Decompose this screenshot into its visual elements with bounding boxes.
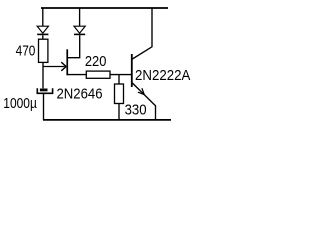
- svg-text:470: 470: [16, 43, 36, 60]
- wire top supply rail: [41, 7, 168, 9]
- wire R3 to bottom rail: [118, 104, 120, 121]
- svg-text:2N2222A: 2N2222A: [135, 67, 190, 84]
- resistor 330: [115, 84, 124, 104]
- UJT emitter arrowhead: [61, 62, 66, 71]
- wire junction to R3: [118, 75, 120, 84]
- capacitor 1000u positive plate: [40, 89, 48, 92]
- diode D2: [74, 26, 85, 34]
- transistor emitter arrowhead: [138, 88, 144, 94]
- transistor 2N2222A base bar: [131, 54, 133, 87]
- wire diode D2 anode drop: [79, 8, 81, 26]
- resistor 470: [39, 39, 48, 62]
- transistor emitter lead: [132, 83, 155, 120]
- wire R1 bottom to capacitor / node E: [42, 62, 44, 88]
- svg-text:2N2646: 2N2646: [57, 86, 103, 103]
- UJT 2N2646 base bar: [66, 49, 68, 75]
- transistor collector lead: [132, 8, 152, 59]
- svg-text:330: 330: [125, 102, 147, 119]
- wire D1 cathode to R1: [42, 35, 44, 39]
- wire bottom ground rail: [43, 119, 171, 121]
- wire R2 to Q2 base: [110, 74, 131, 76]
- wire capacitor to bottom rail: [43, 93, 45, 120]
- capacitor 1000u negative bracket plate: [37, 88, 52, 93]
- wire diode D1 anode drop: [42, 8, 44, 26]
- wire UJT base1 to R2: [67, 74, 86, 76]
- svg-text:220: 220: [85, 53, 107, 70]
- diode D1: [37, 26, 48, 34]
- wire D2 cathode down to UJT base2: [68, 35, 80, 58]
- wire emitter branch to UJT: [43, 66, 65, 68]
- resistor 220: [86, 71, 110, 78]
- svg-text:1000µ: 1000µ: [3, 95, 37, 112]
